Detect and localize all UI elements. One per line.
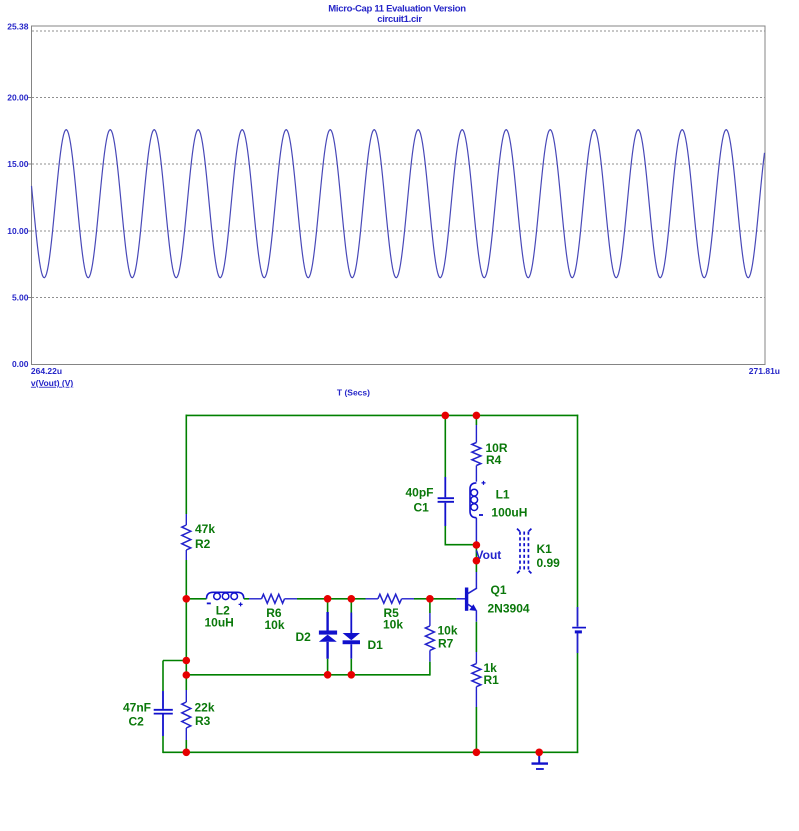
transistor Q1 [465, 588, 477, 612]
label C1 value [406, 485, 434, 514]
x axis title T (Secs) [337, 388, 370, 398]
label R7 value [438, 623, 458, 650]
svg-text:22k: 22k [195, 700, 215, 714]
wire left rail upper [185, 415, 187, 514]
label R4 value [486, 441, 508, 467]
label R5 value [383, 606, 403, 631]
gridlines [28, 31, 766, 298]
trace v(Vout) [32, 130, 765, 278]
svg-text:25.38: 25.38 [7, 21, 29, 31]
svg-text:10uH: 10uH [205, 615, 234, 629]
svg-text:D2: D2 [296, 630, 312, 644]
wire L1 bottom lead [475, 518, 477, 546]
wire R7 bottom [429, 662, 431, 676]
label C2 value [123, 700, 151, 728]
inductor L2 [207, 592, 244, 606]
y axis labels [7, 21, 29, 369]
wire D1 node to R5 [351, 598, 365, 600]
svg-text:271.81u: 271.81u [749, 366, 780, 376]
wire L2 to R6 [244, 598, 249, 600]
label D2 [296, 630, 312, 644]
svg-text:R2: R2 [195, 537, 211, 551]
wire R5 to R7 node [414, 598, 430, 600]
node D2 top [324, 595, 332, 603]
svg-text:L1: L1 [496, 488, 510, 502]
svg-text:2N3904: 2N3904 [488, 601, 530, 615]
svg-text:10.00: 10.00 [7, 226, 29, 236]
plot frame [32, 26, 766, 365]
svg-text:10k: 10k [383, 617, 403, 631]
resistor R6 [249, 594, 297, 603]
wire Vout node [475, 545, 477, 572]
diode D2 [319, 599, 337, 676]
diode D1 [343, 599, 360, 676]
wire left rail middle [185, 560, 187, 690]
svg-text:0.99: 0.99 [537, 556, 561, 570]
resistor R3 [182, 690, 191, 740]
resistor R2 [182, 514, 191, 560]
wire base lead [456, 598, 465, 600]
wire mid row left [186, 598, 206, 600]
label Q1 value [488, 583, 530, 615]
svg-text:264.22u: 264.22u [31, 366, 62, 376]
label R2 value [195, 522, 215, 551]
wire R1 bottom [475, 707, 477, 753]
node Vout label [476, 548, 502, 562]
node L1 bottom [473, 541, 481, 549]
label L2 value [205, 603, 234, 629]
wire C1 bottom to node [445, 526, 477, 546]
svg-text:C1: C1 [414, 500, 430, 514]
coupling K1 [517, 529, 531, 574]
svg-text:K1: K1 [537, 542, 553, 556]
resistor R7 [425, 613, 434, 662]
svg-text:10k: 10k [265, 618, 285, 632]
label R1 value [484, 661, 500, 687]
label R6 value [265, 606, 285, 632]
svg-text:Micro-Cap 11 Evaluation Versio: Micro-Cap 11 Evaluation Version [328, 4, 466, 15]
svg-text:5.00: 5.00 [12, 293, 29, 303]
svg-text:47nF: 47nF [123, 700, 151, 714]
svg-text:100uH: 100uH [491, 505, 527, 519]
svg-text:10k: 10k [438, 623, 458, 637]
svg-text:R1: R1 [484, 673, 500, 687]
wire R7 top lead [429, 599, 431, 613]
wire right rail upper [577, 415, 579, 607]
wire collector lead [475, 572, 477, 589]
label L1 value [491, 488, 527, 520]
node feedback [183, 671, 191, 679]
wire R4 top lead [475, 415, 477, 425]
wire C1 top lead [444, 415, 446, 477]
node R7 top [426, 595, 434, 603]
resistor R4 [472, 425, 481, 482]
battery V1 [572, 607, 586, 653]
svg-text:R3: R3 [195, 714, 211, 728]
node R1 bottom [473, 749, 481, 757]
node D1 bottom [348, 671, 356, 679]
node C1 top [442, 412, 450, 420]
svg-text:Q1: Q1 [491, 583, 507, 597]
wire bottom rail [186, 751, 579, 753]
label R3 value [195, 700, 215, 728]
wire R7 node to base [430, 598, 456, 600]
svg-text:R7: R7 [438, 636, 454, 650]
label K1 value [537, 542, 561, 570]
svg-text:R4: R4 [486, 453, 502, 467]
inductor L1 [470, 481, 486, 518]
x axis labels [31, 366, 780, 376]
node D2 bottom [324, 671, 332, 679]
wire right rail lower [577, 653, 579, 753]
svg-text:T (Secs): T (Secs) [337, 388, 370, 398]
node D1 top [348, 595, 356, 603]
resistor R5 [366, 594, 415, 603]
svg-text:40pF: 40pF [406, 485, 434, 499]
wire R6 to D2 node [297, 598, 352, 600]
wire top rail [186, 414, 579, 416]
resistor R1 [472, 652, 481, 707]
plot title [328, 4, 466, 26]
svg-text:15.00: 15.00 [7, 159, 29, 169]
svg-text:20.00: 20.00 [7, 93, 29, 103]
svg-text:0.00: 0.00 [12, 359, 29, 369]
node Vout [473, 557, 481, 565]
wire C2 top [163, 661, 187, 692]
svg-text:47k: 47k [195, 522, 215, 536]
svg-text:v(Vout) (V): v(Vout) (V) [31, 378, 74, 388]
node R4 top [473, 412, 481, 420]
capacitor C2 [154, 691, 173, 736]
wire C2 bottom [163, 736, 187, 753]
capacitor C1 [438, 477, 454, 526]
ground [532, 753, 549, 769]
node C2 tap [183, 657, 191, 665]
trace legend v(Vout) (V) [31, 378, 74, 388]
node bottom left [183, 749, 191, 757]
label D1 [368, 638, 384, 652]
wire left rail lower [185, 740, 187, 753]
svg-text:C2: C2 [129, 714, 145, 728]
svg-text:circuit1.cir: circuit1.cir [377, 14, 422, 25]
svg-text:D1: D1 [368, 638, 384, 652]
node ground [535, 749, 543, 757]
node left mid [183, 595, 191, 603]
wire emitter lead [475, 611, 477, 652]
wire bottom mid row [186, 674, 430, 676]
